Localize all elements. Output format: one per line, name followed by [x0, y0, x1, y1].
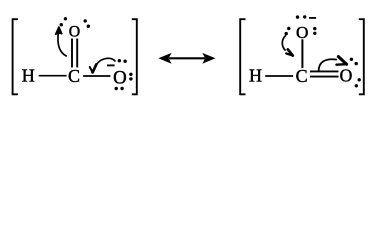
svg-text:H: H	[22, 66, 35, 86]
minus charge top-right of top O	[309, 17, 316, 19]
svg-text:C: C	[68, 66, 80, 86]
left bracket [ of structure 2	[240, 19, 245, 94]
lone pair dots above right O	[118, 59, 121, 62]
right bracket ] of structure 2	[359, 19, 364, 94]
lone pair dots below right O	[115, 87, 118, 90]
bond C-O single	[83, 75, 110, 77]
svg-text:H: H	[249, 66, 262, 86]
double bond C=O horizontal lines	[310, 70, 339, 72]
svg-text:C: C	[296, 66, 308, 86]
lone pair dots upper-right of top O	[84, 19, 87, 22]
resonance double-headed arrow	[169, 57, 205, 59]
lone pair dots upper-right of right O	[350, 58, 353, 61]
lone pair dots lower-right of right O	[358, 78, 361, 81]
bond H-C	[265, 75, 293, 77]
curved arrow from right O lone pair to C-O bond	[96, 58, 115, 64]
minus charge left-above right O	[107, 64, 115, 66]
left bracket [ of structure 1	[13, 19, 18, 94]
lone pair dots above top O	[296, 15, 299, 18]
svg-text:O: O	[69, 24, 80, 41]
right bracket ] of structure 1	[132, 19, 137, 94]
double bond C=O vertical lines	[71, 39, 73, 68]
lone pair dots left of top O	[287, 27, 290, 30]
single bond C-O vertical	[301, 39, 303, 68]
svg-text:O: O	[340, 66, 353, 86]
curved arrow from C=O pi bond up to top O	[58, 33, 67, 56]
lone pair colon right of top O	[313, 27, 316, 30]
lone pair colon right of right O	[129, 73, 132, 76]
svg-text:O: O	[113, 68, 127, 89]
svg-text:O: O	[296, 23, 308, 42]
bond H-C	[39, 75, 67, 77]
lone pair dots upper-left of top O	[60, 23, 63, 26]
curved arrow from top O lone pair toward C-O bond	[282, 35, 286, 50]
curved arrow from C=O pi bond to right O	[319, 59, 337, 71]
